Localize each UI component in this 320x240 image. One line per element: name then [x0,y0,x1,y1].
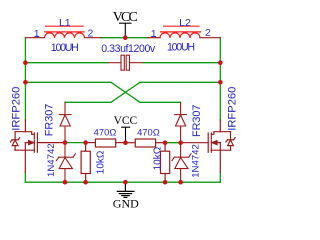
zener D4 1N4742 right [172,143,191,183]
wire gate node left [65,142,86,144]
svg-text:470Ω: 470Ω [137,126,160,137]
wire capacitor row left [25,62,108,64]
node bottom left 10k [83,180,88,185]
ground GND [117,182,135,197]
node bottom left zener [63,180,68,185]
svg-text:GND: GND [113,197,139,211]
resistor R3 470 right [126,139,166,147]
node right rail cap row [218,60,223,65]
node left rail cross row [23,80,28,85]
zener D2 1N4742 left [56,143,75,183]
svg-text:100UH: 100UH [51,42,79,54]
node right gate resistor [163,140,168,145]
svg-text:VCC: VCC [114,115,138,127]
diode D3 FR307 right [175,102,187,142]
node bottom gnd [123,180,128,185]
inductor pin leads [25,37,220,39]
svg-text:10kΩ: 10kΩ [95,150,106,174]
diode D1 FR307 left [59,102,71,142]
node bottom right 10k [163,180,168,185]
wire cross diagonal 1 [111,82,140,102]
wire top left rail [24,38,26,120]
svg-text:FR307: FR307 [191,105,203,137]
node right rail cross row [218,80,223,85]
wire cross diagonal 2 [111,82,140,102]
inductor L1 [44,26,85,38]
wire right source to bottom [219,172,221,182]
node VCC middle junction [123,140,128,145]
node left gate diode [63,140,68,145]
wire upper cross left [25,81,111,83]
svg-text:L2: L2 [179,17,191,29]
wire upper cross right [140,81,220,83]
wire gate node right [165,142,181,144]
svg-text:0.33uf1200v: 0.33uf1200v [101,43,156,55]
inductor L2 [160,26,201,38]
svg-text:100UH: 100UH [167,42,195,54]
node right gate diode [178,140,183,145]
wire capacitor row right [143,62,220,64]
wire lower cross left [65,101,111,103]
svg-text:2: 2 [205,27,211,39]
node VCC top junction [123,35,128,40]
wire top row green segments [101,37,147,39]
node left rail cap row [23,60,28,65]
wire lower cross right [140,101,181,103]
svg-text:L1: L1 [59,17,71,29]
svg-text:IRFP260: IRFP260 [227,87,239,131]
svg-text:470Ω: 470Ω [94,126,117,137]
svg-text:VCC: VCC [113,10,138,25]
transistor Q1 IRFP260 left [11,120,66,172]
svg-text:10kΩ: 10kΩ [153,146,164,170]
resistor R2 470 left [86,139,126,147]
svg-text:FR307: FR307 [44,104,56,136]
wire bottom rail [25,181,220,183]
node bottom right zener [178,180,183,185]
wire top right rail [219,38,221,120]
svg-text:IRFP260: IRFP260 [11,87,23,131]
node left gate resistor [83,140,88,145]
capacitor C1 0.33uf1200v [108,55,143,70]
svg-text:1N4742: 1N4742 [46,143,57,177]
power port VCC middle [121,127,130,143]
resistor R4 10k right [161,143,170,183]
wire [25,38,220,183]
svg-text:1N4742: 1N4742 [190,144,201,178]
transistor Q2 IRFP260 right [181,120,236,172]
resistor R1 10k left [81,143,90,183]
power port VCC top [119,23,132,38]
wire left source to bottom [24,172,26,182]
